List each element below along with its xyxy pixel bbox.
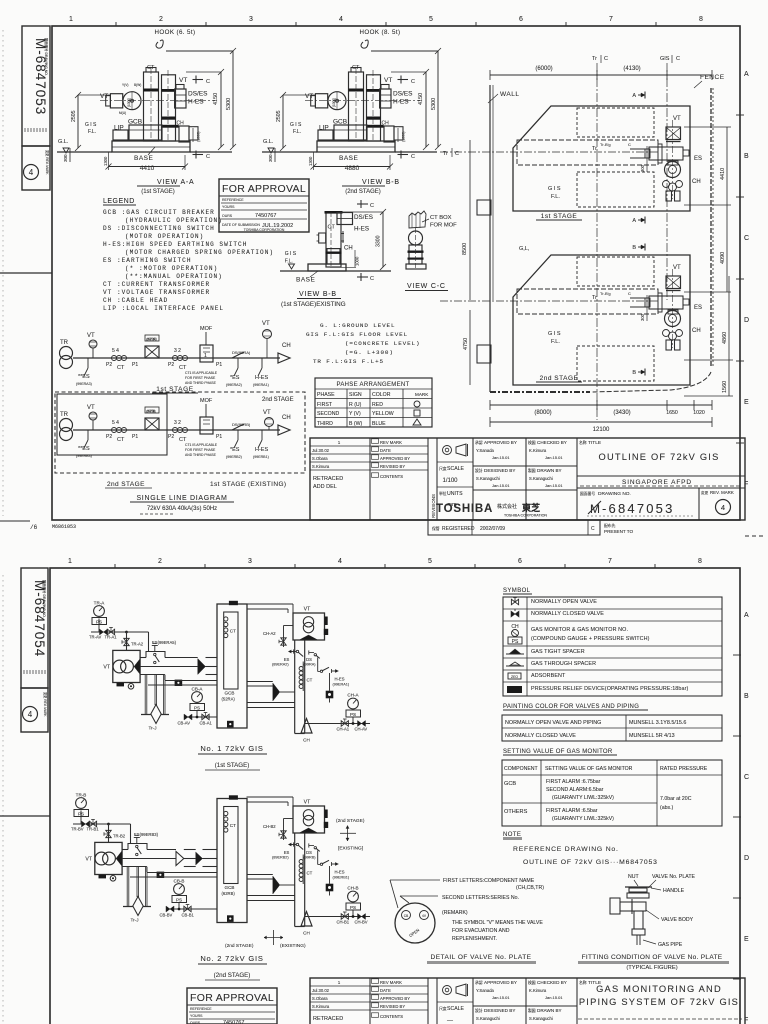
svg-text:LIP: LIP (319, 125, 329, 132)
svg-text:7: 7 (609, 16, 613, 23)
svg-text:CT: CT (230, 629, 236, 634)
leader lines (390, 880, 398, 908)
svg-text:APPROVED BY: APPROVED BY (380, 456, 410, 461)
svg-text:承認: 承認 (475, 980, 483, 985)
svg-text:1020: 1020 (693, 410, 705, 416)
svg-text:G. L:GROUND LEVEL: G. L:GROUND LEVEL (320, 322, 395, 329)
svg-text:A: A (744, 612, 749, 619)
svg-text:2: 2 (158, 558, 162, 565)
svg-text:GAS THROUGH SPACER: GAS THROUGH SPACER (531, 661, 596, 667)
svg-text:C: C (591, 526, 595, 532)
svg-text:VIEW B-B: VIEW B-B (299, 291, 337, 298)
svg-text:G,L,: G,L, (519, 246, 530, 252)
svg-text:GAS MONITOR & GAS MONITOR NO.: GAS MONITOR & GAS MONITOR NO. (531, 627, 628, 633)
svg-text:CHECKED BY: CHECKED BY (537, 440, 567, 445)
svg-text:8: 8 (698, 558, 702, 565)
svg-text:CONTENTS: CONTENTS (380, 474, 403, 479)
svg-text:承認: 承認 (475, 440, 483, 445)
svg-text:GIS: GIS (660, 56, 670, 62)
rev mark cell (698, 488, 700, 520)
svg-text:C: C (628, 142, 631, 147)
svg-text:NORMALLY CLOSED VALVE: NORMALLY CLOSED VALVE (531, 611, 604, 617)
svg-text:LEGEND: LEGEND (103, 198, 135, 205)
svg-text:1000: 1000 (355, 256, 360, 266)
svg-text:ES :EARTHING SWITCH: ES :EARTHING SWITCH (103, 257, 191, 264)
svg-text:(2nd STAGE): (2nd STAGE) (345, 189, 381, 195)
svg-text:TR F.L:GIS F.L+5: TR F.L:GIS F.L+5 (313, 358, 384, 365)
svg-text:G I S: G I S (85, 122, 97, 128)
svg-text:CB-A: CB-A (192, 687, 204, 692)
svg-text:CT: CT (328, 225, 336, 231)
svg-text:B: B (744, 693, 749, 700)
bottom dimension rows (490, 404, 712, 406)
1000 dim (330, 266, 356, 268)
sheet 2 drawing-no strip (21, 568, 48, 688)
Tr band (517, 140, 658, 165)
svg-text:Tr: Tr (592, 295, 597, 301)
svg-text:THIRD: THIRD (317, 421, 333, 427)
No.1 main bus duct (140, 657, 146, 659)
GIS room outline (513, 106, 690, 211)
gas through spacer symbol (509, 662, 521, 666)
svg-text:300: 300 (640, 313, 645, 321)
svg-text:YOURS: YOURS (190, 1014, 203, 1018)
centerlines vertical (596, 63, 598, 420)
svg-text:ES(99ERB3): ES(99ERB3) (134, 832, 159, 837)
registered strip (428, 520, 600, 535)
svg-text:(52RA): (52RA) (222, 697, 236, 702)
svg-text:PAINTING COLOR FOR VALVES AND: PAINTING COLOR FOR VALVES AND PIPING (503, 704, 639, 710)
svg-text:1st STAGE: 1st STAGE (541, 213, 578, 220)
svg-text:CT1 IS APPLICABLE: CT1 IS APPLICABLE (185, 443, 218, 447)
svg-text:SECOND: SECOND (317, 411, 339, 417)
lower column (327, 249, 340, 264)
svg-text:COLOR: COLOR (372, 392, 391, 398)
svg-text:BASE: BASE (134, 155, 154, 162)
svg-text:(99ERA1): (99ERA1) (253, 383, 269, 387)
svg-text:S.Obara: S.Obara (312, 996, 328, 1001)
svg-text:RETRACED: RETRACED (313, 1016, 343, 1022)
svg-text:**ES: **ES (78, 446, 90, 452)
section C mark top (357, 203, 368, 205)
svg-text:TOSHIBA CORPORATION: TOSHIBA CORPORATION (504, 514, 547, 518)
svg-text:名称: 名称 (579, 980, 587, 985)
svg-text:CH: CH (382, 121, 390, 127)
svg-text:2nd STAGE: 2nd STAGE (262, 397, 294, 403)
svg-text:APPROVED BY: APPROVED BY (484, 440, 517, 445)
svg-text:M6861053: M6861053 (52, 524, 76, 530)
svg-text:4410: 4410 (140, 165, 155, 172)
equipment centerline (672, 269, 674, 348)
CH bushing (409, 231, 423, 245)
svg-text:CH: CH (692, 328, 701, 334)
svg-text:(HYDRAULIC OPERATION): (HYDRAULIC OPERATION) (125, 217, 223, 224)
svg-text:VT: VT (262, 321, 270, 327)
svg-text:(99ERB1): (99ERB1) (333, 876, 350, 880)
svg-text:保管: 保管 (432, 526, 440, 531)
svg-text:変更 REV. MARK: 変更 REV. MARK (43, 692, 48, 717)
svg-text:8: 8 (699, 16, 703, 23)
pressure relief symbol (507, 686, 522, 693)
svg-text:SETTING VALUE OF GAS MONITOR: SETTING VALUE OF GAS MONITOR (503, 749, 613, 755)
svg-text:ES: ES (694, 156, 702, 162)
svg-text:5300: 5300 (431, 98, 437, 110)
support column (409, 245, 422, 264)
svg-text:YELLOW: YELLOW (372, 411, 394, 417)
svg-text:(1st STAGE)EXISTING: (1st STAGE)EXISTING (281, 301, 346, 308)
svg-text:(MOTOR OPERATION): (MOTOR OPERATION) (125, 233, 204, 240)
svg-text:C: C (676, 56, 680, 62)
CB-B row patch (199, 908, 217, 910)
svg-text:CHECKED BY: CHECKED BY (537, 980, 567, 985)
svg-text:OUTLINE OF 72kV GIS···M6847053: OUTLINE OF 72kV GIS···M6847053 (523, 859, 658, 866)
svg-text:DATE OF SUBMISSION: DATE OF SUBMISSION (222, 223, 260, 227)
svg-text:NUT: NUT (628, 874, 639, 880)
svg-text:S.Kimura: S.Kimura (312, 1004, 330, 1009)
svg-text:C: C (370, 203, 374, 209)
svg-text:(* :MOTOR OPERATION): (* :MOTOR OPERATION) (125, 265, 218, 272)
svg-text:5: 5 (428, 558, 432, 565)
svg-text:B: B (632, 370, 636, 376)
svg-text:SECOND LETTERS:SERIES No.: SECOND LETTERS:SERIES No. (442, 895, 519, 901)
gas piping schematic No.1 (91, 606, 217, 724)
svg-text:CT: CT (307, 871, 313, 876)
svg-text:DRAWING NO.: DRAWING NO. (598, 491, 631, 497)
svg-text:LIP: LIP (114, 125, 124, 132)
svg-text:DATE: DATE (380, 988, 391, 993)
svg-text:RATED PRESSURE: RATED PRESSURE (660, 766, 708, 772)
equipment centerline (672, 120, 674, 199)
svg-text:(99ERB2): (99ERB2) (226, 455, 242, 459)
svg-text:UNITS: UNITS (447, 491, 463, 497)
through spacer (open) (176, 852, 184, 866)
svg-text:ES(99ERA5): ES(99ERA5) (152, 640, 177, 645)
svg-text:CB-B1: CB-B1 (182, 913, 195, 918)
svg-text:CH: CH (344, 246, 353, 252)
svg-text:P2: P2 (168, 362, 174, 368)
svg-text:A: A (632, 218, 636, 224)
svg-text:(99RA): (99RA) (304, 663, 317, 667)
painting color table (502, 715, 722, 741)
svg-text:B (W): B (W) (349, 421, 363, 427)
FOR APPROVAL stamp sheet 2 (187, 988, 277, 1024)
svg-text:NOTE: NOTE (503, 832, 521, 838)
svg-text:PRESSURE RELIEF DEVICE(OPARATI: PRESSURE RELIEF DEVICE(OPARATING PRESSUR… (531, 686, 688, 692)
bay dashed top (577, 108, 654, 137)
svg-text:Y(V): Y(V) (122, 83, 128, 87)
svg-text:**ES: **ES (78, 374, 90, 380)
svg-text:2: 2 (159, 16, 163, 23)
svg-text:*ES: *ES (230, 447, 240, 453)
svg-text:DS/ES: DS/ES (188, 91, 208, 98)
2nd stage bottom chain (490, 391, 590, 393)
svg-text:SECOND ALARM:6.5bar: SECOND ALARM:6.5bar (546, 787, 604, 793)
svg-text:OTHERS: OTHERS (504, 809, 528, 815)
sheet 2 outer border (50, 568, 740, 1024)
svg-text:尺度: 尺度 (439, 466, 447, 471)
valve number plate detail (390, 878, 544, 943)
svg-text:VT: VT (100, 93, 108, 100)
svg-text:OUTLINE OF 72kV GIS: OUTLINE OF 72kV GIS (599, 452, 720, 462)
svg-text:B(W): B(W) (134, 83, 141, 87)
svg-text:CH-B1: CH-B1 (337, 920, 350, 925)
svg-text:ADSORBENT: ADSORBENT (531, 673, 566, 679)
svg-text:VT: VT (179, 77, 187, 84)
svg-text:4090: 4090 (720, 252, 726, 264)
svg-text:Jan.15.01: Jan.15.01 (492, 995, 510, 1000)
svg-text:FOR FIRST PHASE: FOR FIRST PHASE (185, 376, 216, 380)
svg-text:S.Obara: S.Obara (312, 456, 328, 461)
svg-text:Tr-J: Tr-J (149, 726, 157, 731)
svg-text:1560: 1560 (722, 381, 728, 393)
svg-text:DS/ES: DS/ES (393, 91, 413, 98)
svg-text:Jan.15.01: Jan.15.01 (492, 483, 510, 488)
svg-text:設計: 設計 (475, 468, 483, 473)
VT plan (666, 276, 681, 289)
third angle projection symbol (443, 986, 452, 995)
svg-text:Jul.30.02: Jul.30.02 (312, 448, 330, 453)
svg-text:DESIGNED BY: DESIGNED BY (484, 468, 515, 473)
svg-text:VT: VT (673, 116, 681, 122)
svg-text:Jan.15.01: Jan.15.01 (492, 455, 510, 460)
svg-text:FITTING CONDITION OF VALVE No.: FITTING CONDITION OF VALVE No. PLATE (582, 954, 723, 961)
svg-text:C: C (206, 154, 210, 160)
svg-text:5 4: 5 4 (112, 348, 119, 354)
svg-text:FOR EVACUATION AND: FOR EVACUATION AND (452, 928, 510, 934)
svg-text:東芝: 東芝 (522, 502, 540, 513)
svg-text:REVISED BY: REVISED BY (380, 1004, 405, 1009)
svg-text:1: 1 (338, 440, 341, 445)
svg-text:CT1 IS APPLICABLE: CT1 IS APPLICABLE (185, 371, 218, 375)
sheet 1 fold mark (0, 272, 52, 274)
svg-text:APPROVED BY: APPROVED BY (380, 996, 410, 1001)
svg-text:配布先: 配布先 (604, 523, 616, 528)
title block frame (310, 978, 745, 1024)
svg-text:変更 REV. MARK: 変更 REV. MARK (45, 150, 50, 175)
svg-text:CB-AV: CB-AV (178, 721, 191, 726)
svg-text:S.Kanaguchi: S.Kanaguchi (476, 1016, 500, 1021)
svg-text:Tr: Tr (443, 151, 448, 157)
svg-text:DS(99RA): DS(99RA) (232, 350, 251, 355)
svg-text:(99ERA2): (99ERA2) (226, 383, 242, 387)
svg-text:CH: CH (692, 179, 701, 185)
MOF riser 1st stage (205, 332, 207, 345)
svg-text:CB-B: CB-B (174, 879, 185, 884)
VIEW C-C (405, 211, 457, 291)
svg-text:AND THIRD PHASE: AND THIRD PHASE (185, 381, 217, 385)
svg-text:HOOK (6. 5t): HOOK (6. 5t) (155, 29, 196, 36)
svg-text:P2: P2 (168, 434, 174, 440)
svg-text:DATE: DATE (380, 448, 391, 453)
svg-text:B: B (744, 153, 749, 160)
svg-text:Tr-B'g: Tr-B'g (600, 142, 611, 147)
svg-text:4: 4 (29, 168, 34, 177)
svg-text:(6200): (6200) (147, 337, 157, 341)
DS/ES switch box (337, 213, 353, 225)
svg-text:K.Kimura: K.Kimura (529, 448, 547, 453)
svg-text:P1: P1 (216, 362, 222, 368)
bay dashed top (577, 257, 654, 286)
svg-text:VT: VT (305, 93, 313, 100)
svg-text:CH-AV: CH-AV (355, 727, 368, 732)
svg-text:DS: DS (306, 657, 312, 662)
svg-text:(1st STAGE): (1st STAGE) (141, 189, 175, 195)
svg-text:P1: P1 (132, 362, 138, 368)
title block frame (310, 438, 745, 520)
adsorbent symbol (508, 673, 521, 679)
gas tight spacer symbol (509, 649, 521, 654)
svg-text:F.L.: F.L. (551, 194, 560, 200)
svg-text:C: C (604, 56, 608, 62)
svg-text:Y.Sanada: Y.Sanada (476, 988, 495, 993)
svg-text:5 4: 5 4 (112, 420, 119, 426)
Tr band (517, 289, 658, 314)
base (406, 264, 426, 269)
equipment elevation VIEW B-B (262, 40, 441, 170)
svg-text:2505: 2505 (71, 110, 77, 122)
svg-text:(TYPICAL FIGURE): (TYPICAL FIGURE) (626, 965, 677, 971)
svg-text:E: E (744, 936, 749, 943)
svg-text:VT: VT (304, 800, 311, 806)
svg-text:GAS MONITORING AND: GAS MONITORING AND (596, 984, 722, 994)
svg-text:S.Kanaguchi: S.Kanaguchi (529, 1016, 553, 1021)
svg-text:/6: /6 (30, 524, 38, 531)
valve fitting figure (610, 874, 695, 948)
svg-text:C: C (206, 79, 210, 85)
svg-text:REVISED BY: REVISED BY (380, 464, 405, 469)
svg-text:(**:MANUAL OPERATION): (**:MANUAL OPERATION) (125, 273, 223, 280)
svg-text:CT: CT (117, 365, 125, 371)
svg-text:2505: 2505 (276, 110, 282, 122)
svg-text:CB-BV: CB-BV (160, 913, 173, 918)
svg-text:SYMBOL: SYMBOL (503, 588, 531, 594)
svg-text:A: A (744, 71, 749, 78)
svg-text:G I S: G I S (548, 186, 561, 192)
svg-text:S.Kimura: S.Kimura (312, 464, 330, 469)
svg-text:3 2: 3 2 (174, 420, 181, 426)
svg-text:ES: ES (284, 850, 290, 855)
dim 4750 left (469, 310, 471, 385)
svg-text:(62B): (62B) (147, 409, 155, 413)
svg-text:MARK: MARK (415, 392, 429, 397)
svg-text:VT: VT (87, 405, 95, 411)
svg-text:GAS PIPE: GAS PIPE (658, 942, 683, 948)
svg-text:CH-BV: CH-BV (355, 920, 368, 925)
svg-text:TOSHIBA: TOSHIBA (436, 503, 493, 515)
svg-text:P1: P1 (132, 434, 138, 440)
svg-text:TR-B2: TR-B2 (113, 834, 126, 839)
svg-text:COMPONENT: COMPONENT (504, 766, 539, 772)
svg-text:MUNSELL 5R 4/13: MUNSELL 5R 4/13 (629, 733, 675, 739)
svg-text:RETRACED: RETRACED (313, 476, 343, 482)
side fitting (319, 233, 326, 243)
svg-text:OPEN: OPEN (408, 927, 420, 938)
svg-text:C: C (370, 276, 374, 282)
svg-text:CH: CH (303, 738, 310, 743)
svg-text:-6847053: -6847053 (602, 501, 675, 516)
No.2 main bus duct (122, 849, 128, 851)
svg-text:G I S: G I S (290, 122, 302, 128)
svg-text:CT BOX: CT BOX (430, 215, 452, 221)
svg-text:PRESENT TO: PRESENT TO (604, 529, 634, 534)
svg-text:MOF: MOF (200, 398, 213, 404)
svg-text:APPROVED BY: APPROVED BY (484, 980, 517, 985)
svg-text:SINGLE LINE DIAGRAM: SINGLE LINE DIAGRAM (136, 495, 227, 502)
svg-text:YOURS: YOURS (222, 205, 235, 209)
svg-text:(GUARANTY LIWL:325kV): (GUARANTY LIWL:325kV) (552, 795, 614, 801)
svg-text:FOR MOF: FOR MOF (430, 223, 457, 229)
svg-text:株式会社: 株式会社 (497, 503, 517, 510)
base slab (308, 264, 346, 271)
svg-text:FOR APPROVAL: FOR APPROVAL (222, 183, 306, 195)
svg-text:1650: 1650 (666, 410, 678, 416)
svg-text:Y (V): Y (V) (349, 411, 361, 417)
svg-text:3300: 3300 (376, 235, 382, 247)
svg-text:VT: VT (263, 410, 271, 416)
svg-text:G I S: G I S (548, 331, 561, 337)
svg-text:G.L.: G.L. (58, 139, 69, 145)
gas piping schematic No.2 (73, 798, 199, 916)
tight spacer (solid) (196, 852, 203, 865)
svg-text:REFERENCE: REFERENCE (222, 198, 244, 202)
svg-text:NORMALLY OPEN VALVE AND PIPING: NORMALLY OPEN VALVE AND PIPING (505, 720, 601, 726)
svg-text:TR-A2: TR-A2 (131, 642, 144, 647)
corner dashes (745, 535, 766, 537)
svg-text:CH: CH (282, 343, 291, 349)
svg-text:4750: 4750 (463, 338, 469, 350)
svg-text:H-ES: H-ES (354, 226, 369, 233)
svg-text:1: 1 (69, 16, 73, 23)
CH bushing plan (665, 162, 681, 178)
svg-text:FIRST ALARM :6.75bar: FIRST ALARM :6.75bar (546, 779, 601, 785)
svg-text:ADD DEL: ADD DEL (313, 484, 337, 490)
svg-text:H-ES: H-ES (255, 375, 268, 381)
svg-text:ES: ES (694, 305, 702, 311)
svg-text:SCALE: SCALE (447, 466, 465, 472)
svg-text:Jul.30.02: Jul.30.02 (312, 988, 330, 993)
svg-text:NORMALLY OPEN VALVE: NORMALLY OPEN VALVE (531, 599, 597, 605)
svg-text:CH-B: CH-B (347, 886, 358, 891)
svg-text:4: 4 (721, 503, 725, 512)
symbol table (503, 597, 722, 696)
svg-text:H-ES:HIGH SPEED EARTHING SWITC: H-ES:HIGH SPEED EARTHING SWITCH (103, 241, 247, 248)
svg-text:4410: 4410 (720, 168, 726, 180)
svg-text:(4130): (4130) (623, 66, 640, 72)
svg-text:FIRST LETTERS:COMPONENT NAME: FIRST LETTERS:COMPONENT NAME (443, 878, 535, 884)
svg-text:1: 1 (338, 980, 341, 985)
svg-text:MUNSELL 3.1Y8.5/15.6: MUNSELL 3.1Y8.5/15.6 (629, 720, 686, 726)
svg-text:BLUE: BLUE (372, 421, 386, 427)
svg-text:7: 7 (608, 558, 612, 565)
svg-text:GIS F.L:GIS FLOOR LEVEL: GIS F.L:GIS FLOOR LEVEL (306, 331, 408, 338)
svg-text:GAS TIGHT SPACER: GAS TIGHT SPACER (531, 649, 585, 655)
svg-text:(99ERA3): (99ERA3) (76, 382, 92, 386)
svg-text:図面番号: 図面番号 (580, 491, 595, 496)
svg-text:RED: RED (372, 402, 383, 408)
svg-text:REV MARK: REV MARK (380, 440, 402, 445)
svg-text:1: 1 (68, 558, 72, 565)
svg-text:P2: P2 (106, 362, 112, 368)
svg-text:VT :VOLTAGE TRANSFORMER: VT :VOLTAGE TRANSFORMER (103, 289, 210, 296)
svg-text:(3430): (3430) (613, 410, 630, 416)
svg-text:GCB :GAS CIRCUIT BREAKER: GCB :GAS CIRCUIT BREAKER (103, 209, 215, 216)
svg-text:2nd STAGE: 2nd STAGE (107, 481, 145, 488)
svg-text:CH-B2: CH-B2 (263, 824, 276, 829)
svg-text:VT: VT (85, 857, 92, 863)
svg-text:C: C (744, 774, 749, 781)
svg-text:(62RB): (62RB) (222, 891, 236, 896)
svg-text:GCB: GCB (225, 885, 235, 890)
